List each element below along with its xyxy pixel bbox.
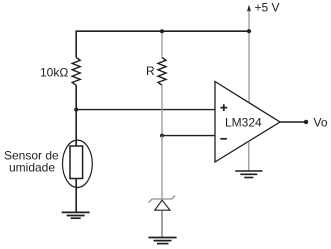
svg-text:umidade: umidade — [9, 161, 55, 175]
op-amp U1 LM324 triangle — [215, 82, 280, 163]
op-amp + pin mark — [220, 104, 227, 111]
wire: left branch top (rail to 10k resistor) — [75, 31, 77, 57]
node: junction of R, zener and op-amp − input — [160, 134, 164, 138]
ground GND3 (op-amp negative supply) — [235, 171, 262, 178]
svg-text:Vo: Vo — [314, 115, 328, 129]
node: top rail / +5V junction — [247, 29, 251, 33]
svg-text:R: R — [146, 64, 155, 78]
wire: +5V stem down to op-amp V+ pin, gray — [248, 11, 250, 103]
svg-text:LM324: LM324 — [225, 115, 262, 129]
wire: R to inverting-input junction, gray — [161, 85, 163, 135]
op-amp − pin mark — [220, 138, 227, 140]
wire: middle branch top (rail to R), gray — [161, 31, 163, 57]
power +5V arrowhead — [247, 5, 251, 12]
sensor S1 ellipse (humidity sensor body) — [63, 140, 93, 187]
wire: zener to ground — [161, 210, 163, 237]
wire: op-amp output — [280, 121, 306, 123]
wire: sensor to ground — [75, 179, 77, 213]
sensor S1 element rectangle — [70, 146, 83, 179]
node: top rail / R branch junction — [160, 29, 164, 33]
wire: left branch from 10k to sensor — [75, 85, 77, 146]
svg-text:10kΩ: 10kΩ — [40, 66, 68, 80]
wire: top rail from 10k branch to +5V branch — [76, 30, 250, 32]
wire: op-amp − input wire — [162, 135, 215, 137]
wire: junction down to zener, gray — [161, 136, 163, 199]
node: junction of 10k, sensor and op-amp + input — [74, 108, 78, 112]
ground GND1 (below sensor) — [62, 212, 90, 218]
zener diode D1 anode triangle — [155, 200, 170, 210]
resistor R — [158, 58, 166, 86]
wire: op-amp + input wire — [76, 109, 215, 111]
ground GND2 (below zener) — [148, 238, 176, 244]
node: output terminal Vo — [304, 120, 308, 124]
wire: op-amp V− pin to ground, gray — [248, 142, 250, 172]
resistor R1 10kΩ — [72, 58, 80, 86]
zener diode D1 cathode bar — [149, 196, 175, 203]
svg-text:+5 V: +5 V — [255, 0, 280, 14]
